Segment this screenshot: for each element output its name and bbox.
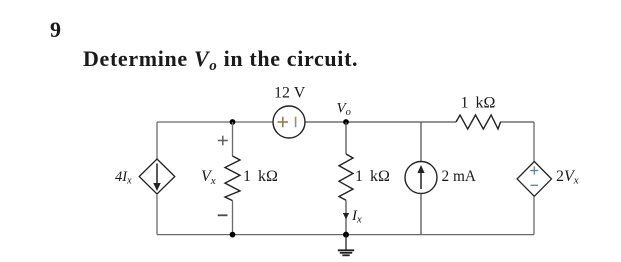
wire: top rail right segment (resistor R4 to right corner): [500, 121, 534, 123]
wire: top rail left segment (node A to 12V source): [157, 121, 273, 123]
node: junction dot top of Vx branch: [230, 119, 236, 125]
node: junction dot at ground: [343, 232, 349, 238]
svg-text:4Ix: 4Ix: [115, 169, 132, 187]
wire: bottom rail: [157, 234, 534, 236]
svg-text:9: 9: [50, 17, 61, 42]
svg-text:2 mA: 2 mA: [442, 168, 476, 185]
ground: [338, 235, 354, 256]
wire: Vx branch lower segment: [232, 201, 234, 235]
wire: left branch upper segment: [156, 122, 158, 159]
svg-text:1 kΩ: 1 kΩ: [243, 168, 278, 185]
wire: current source branch upper segment: [420, 122, 422, 162]
wire: left branch lower segment: [156, 194, 158, 235]
svg-text:Vo: Vo: [337, 101, 351, 119]
svg-text:1 kΩ: 1 kΩ: [355, 168, 390, 185]
wire: current source branch lower segment: [420, 194, 422, 235]
node Vo dot: [343, 119, 349, 125]
wire: right branch upper segment: [533, 122, 535, 162]
dependent current source 4Ix (diamond, arrow down): [139, 159, 175, 194]
svg-text:12 V: 12 V: [274, 84, 306, 101]
dependent voltage source 2Vx (diamond with + -): [517, 162, 551, 197]
wire: right branch lower segment: [533, 196, 535, 234]
resistor R1 1 kOhm (Vx across): [225, 156, 240, 201]
svg-text:Determine Vo in the circuit.: Determine Vo in the circuit.: [83, 46, 358, 74]
minus sign of Vx polarity: [218, 214, 228, 216]
voltage source V1 12V (circle with + -): [273, 106, 305, 138]
svg-text:1 kΩ: 1 kΩ: [461, 95, 496, 112]
wire: middle branch lower segment with Ix arrow: [343, 200, 349, 234]
resistor R2 1 kOhm (middle): [339, 154, 353, 200]
resistor R4 1 kOhm (top): [456, 115, 501, 129]
node: junction dot bottom of Vx branch: [230, 232, 236, 238]
svg-text:2Vx: 2Vx: [556, 168, 579, 187]
current source I1 2mA (circle, arrow up): [405, 162, 437, 194]
wire: middle branch upper segment: [345, 122, 347, 154]
wire: top rail middle segment (12V source to resistor R4): [305, 121, 456, 123]
plus sign of Vx polarity: [218, 136, 228, 146]
svg-text:Vx: Vx: [201, 168, 216, 187]
svg-text:Ix: Ix: [351, 208, 362, 226]
wire: Vx branch upper segment: [232, 122, 234, 156]
title: Determine Vo in the circuit.: [83, 46, 358, 74]
